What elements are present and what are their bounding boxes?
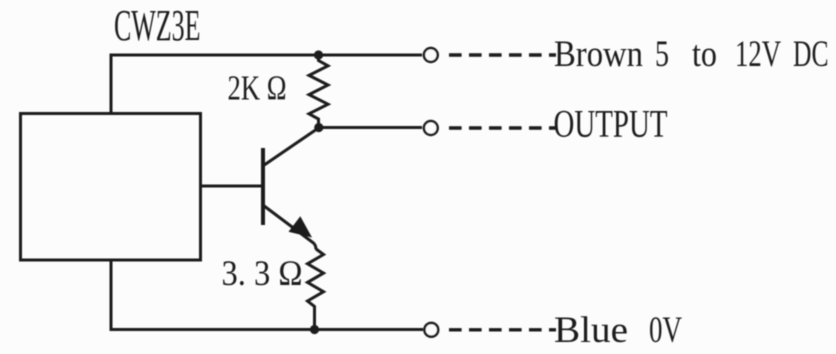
terminal blue bbox=[424, 323, 438, 337]
transistor Q1 emitter bbox=[264, 206, 317, 250]
wire box bottom to rail bbox=[110, 260, 113, 331]
svg-text:5: 5 bbox=[655, 33, 669, 74]
svg-text:3. 3 Ω: 3. 3 Ω bbox=[222, 253, 303, 293]
wire top rail bbox=[110, 54, 423, 57]
transistor Q1 base bar bbox=[261, 148, 265, 225]
svg-text:0V: 0V bbox=[649, 310, 682, 351]
wire dashed output bbox=[449, 126, 556, 129]
terminal output bbox=[424, 121, 438, 135]
transistor Q1 emitter arrow bbox=[289, 216, 313, 237]
wire box top to rail bbox=[110, 54, 113, 114]
svg-text:DC: DC bbox=[793, 33, 829, 74]
wire base bbox=[201, 185, 262, 188]
resistor R1 2K zigzag bbox=[309, 55, 328, 128]
transistor Q1 collector bbox=[264, 128, 319, 166]
node junction top rail bbox=[314, 50, 323, 59]
sensor box CWZ3E bbox=[21, 114, 201, 261]
wire dashed blue bbox=[449, 328, 556, 331]
svg-text:OUTPUT: OUTPUT bbox=[554, 101, 668, 145]
resistor R2 3.3 zigzag bbox=[308, 249, 324, 330]
svg-text:12V: 12V bbox=[735, 33, 781, 74]
node junction output bbox=[314, 123, 323, 132]
node junction bottom rail bbox=[310, 325, 319, 334]
svg-text:Blue: Blue bbox=[554, 310, 628, 351]
wire dashed brown bbox=[449, 53, 556, 56]
label Brown 5 to 12V DC bbox=[554, 33, 829, 74]
terminal brown bbox=[424, 48, 438, 62]
wire output rail bbox=[319, 126, 422, 129]
svg-text:2K Ω: 2K Ω bbox=[228, 70, 287, 108]
svg-text:Brown: Brown bbox=[554, 33, 643, 74]
wire bottom rail bbox=[110, 328, 424, 331]
svg-text:to: to bbox=[692, 33, 717, 74]
svg-text:CWZ3E: CWZ3E bbox=[114, 1, 201, 50]
label Blue 0V bbox=[554, 310, 682, 351]
